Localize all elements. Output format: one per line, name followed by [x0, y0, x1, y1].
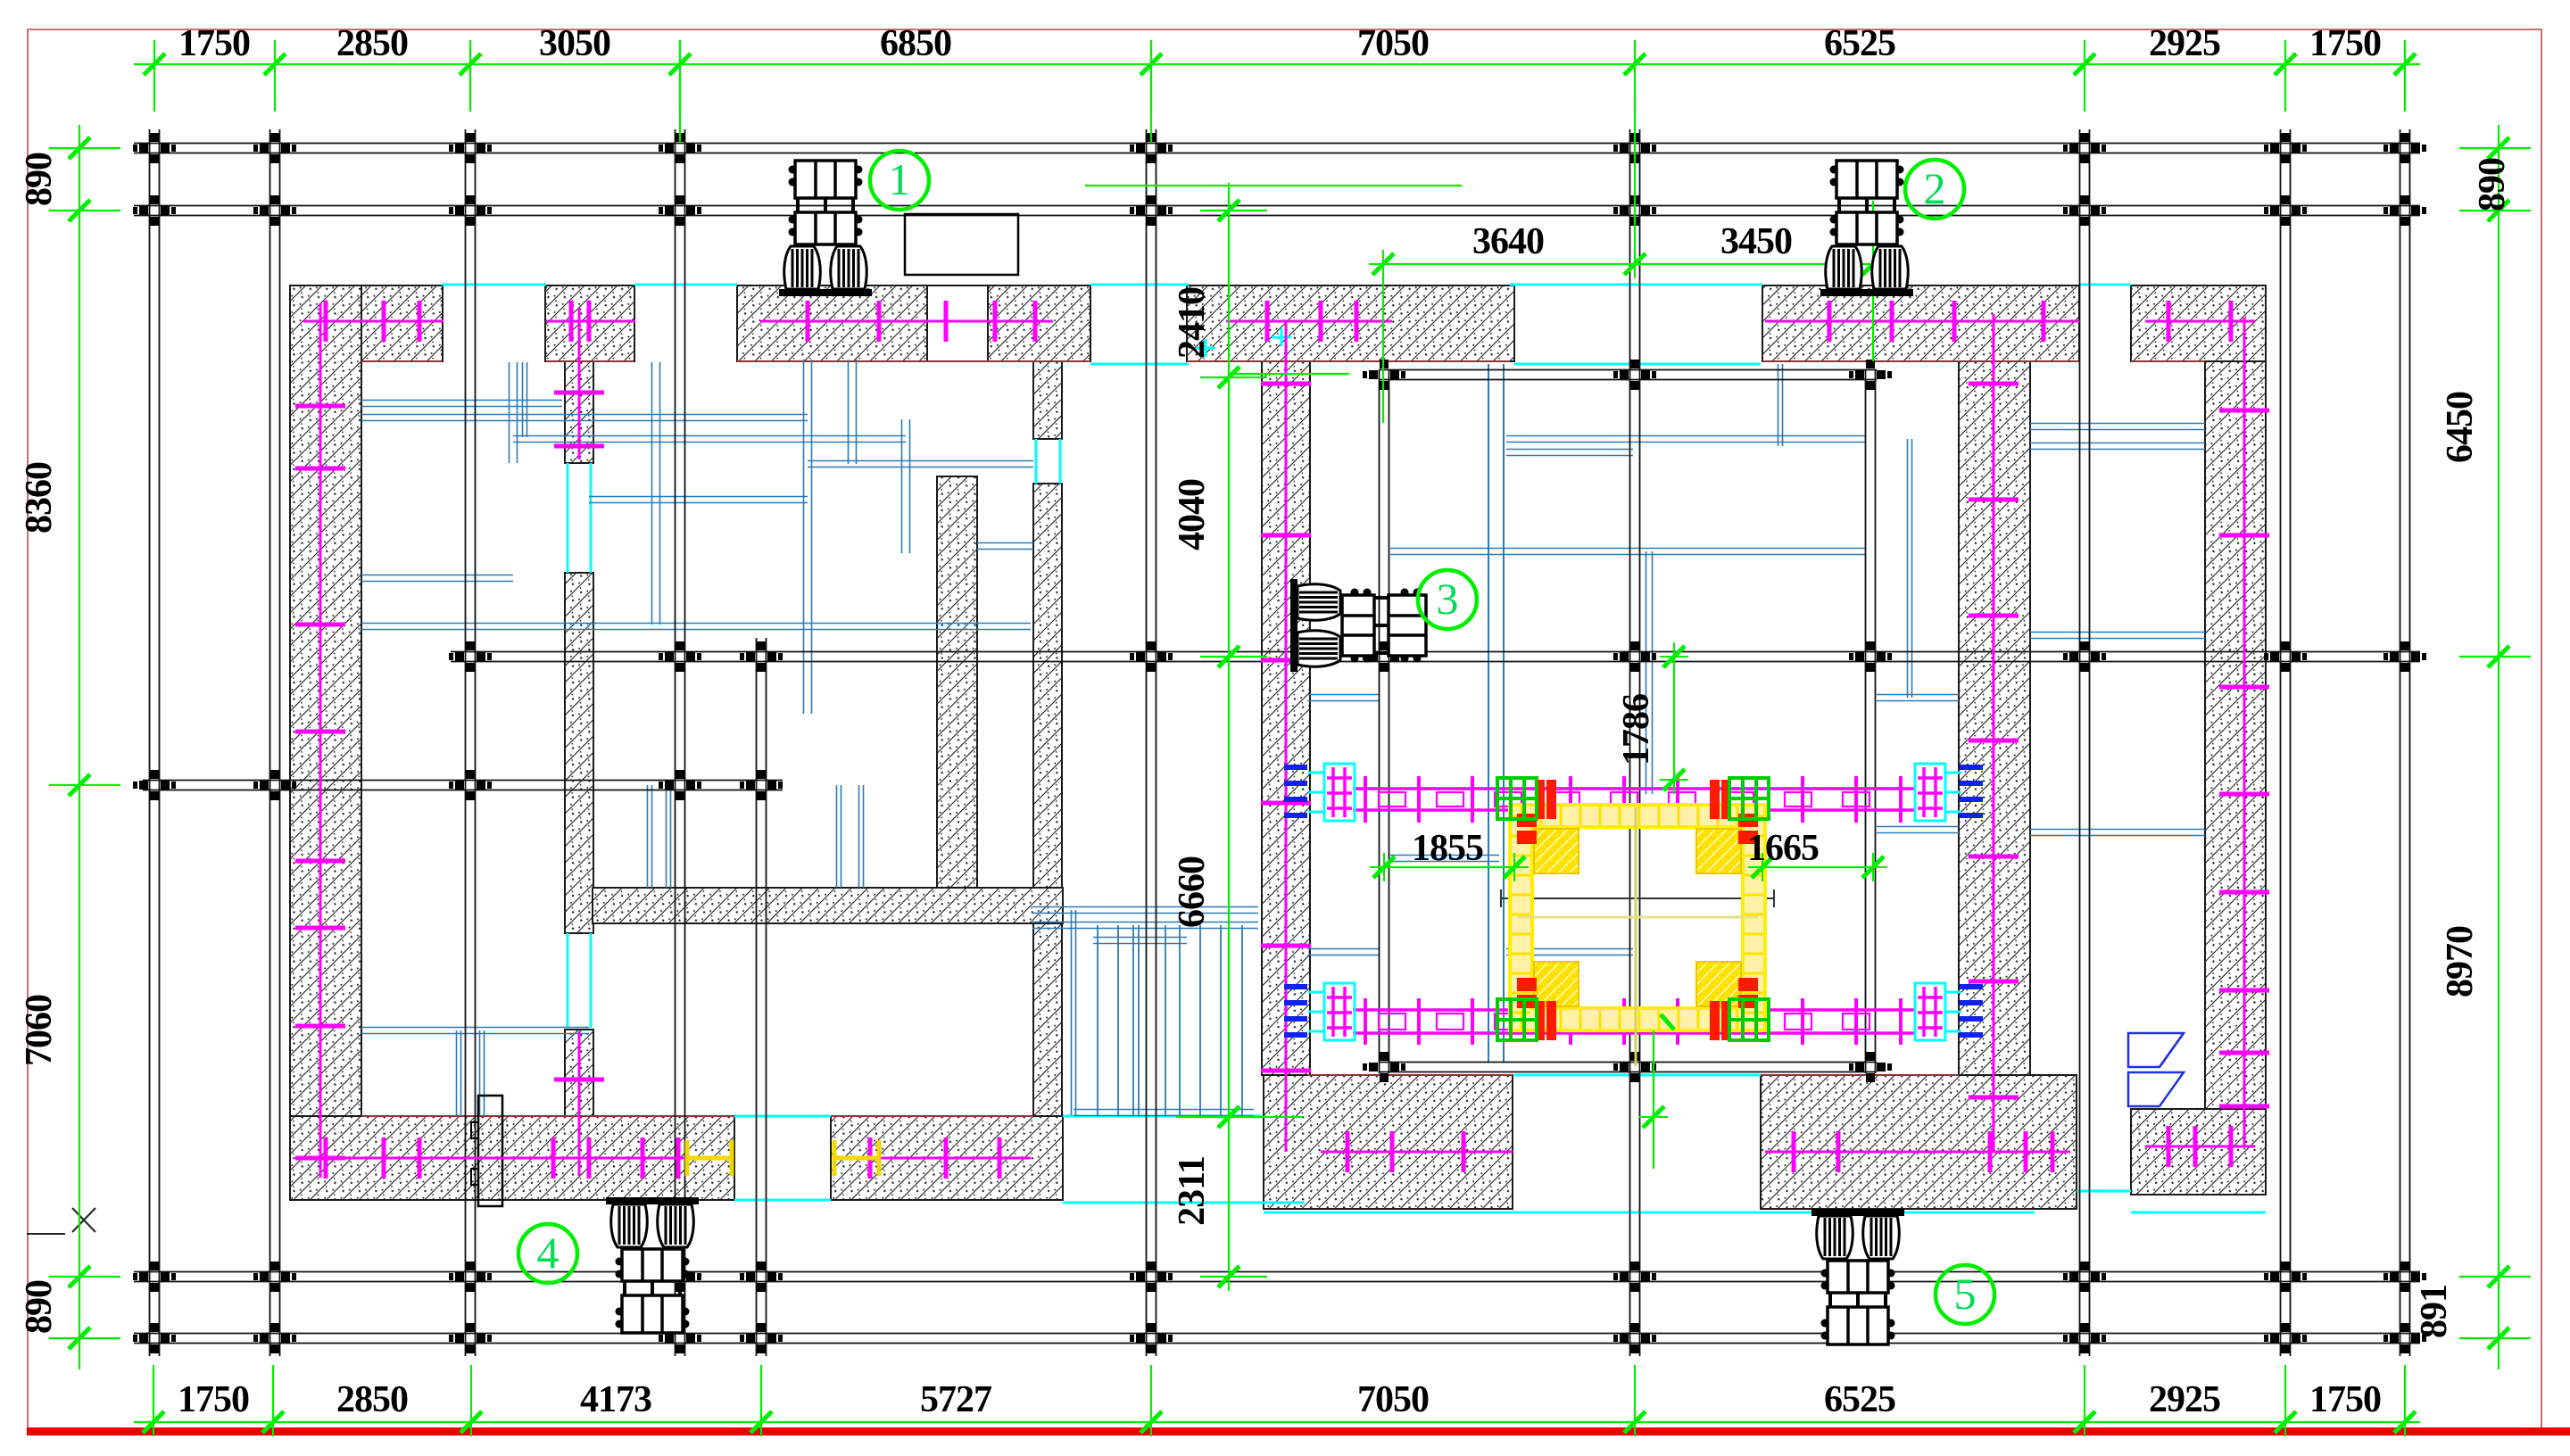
node clamp	[449, 133, 492, 163]
node clamp	[740, 1323, 783, 1353]
pale cross lines	[1635, 807, 1637, 1066]
svg-text:7060: 7060	[19, 995, 60, 1066]
door jamb bracket	[478, 1096, 502, 1206]
node clamp	[133, 1262, 176, 1292]
svg-text:7050: 7050	[1357, 23, 1429, 64]
node clamp	[2063, 133, 2106, 163]
dimension line left	[49, 125, 120, 1369]
node clamp	[659, 195, 701, 226]
svg-text:1786: 1786	[1616, 694, 1657, 765]
svg-text:7050: 7050	[1357, 1379, 1429, 1420]
cyan waler end boxes	[1324, 764, 1355, 821]
svg-text:2925: 2925	[2149, 1379, 2220, 1420]
wall C mid	[1033, 484, 1062, 888]
svg-text:6850: 6850	[880, 23, 951, 64]
wall D right-room left	[1262, 361, 1310, 1075]
node clamp	[740, 641, 783, 672]
node clamp	[2383, 195, 2426, 226]
svg-text:2850: 2850	[336, 1379, 408, 1420]
dims 3640 3450	[1085, 98, 1887, 423]
wire h-rail y166	[134, 144, 2420, 153]
node clamp	[133, 1323, 176, 1353]
machine 5	[1811, 1209, 1904, 1344]
svg-text:6525: 6525	[1824, 23, 1895, 64]
node clamp	[2264, 1323, 2307, 1353]
wall top band seg3 outline	[737, 285, 1090, 361]
mid dimension chain	[1176, 183, 1349, 1291]
wall top band seg5	[1762, 285, 2079, 361]
node clamp	[1849, 1052, 1892, 1082]
svg-text:3640: 3640	[1472, 221, 1544, 262]
svg-text:4: 4	[537, 1228, 560, 1278]
node clamp	[449, 770, 492, 800]
reference cross mark	[27, 1208, 95, 1234]
node clamp	[1613, 641, 1656, 672]
wire v-standard x762	[676, 129, 685, 1356]
interior partition lines (blue) right room	[1307, 364, 1959, 1062]
node clamp	[659, 1262, 701, 1292]
red clamp blocks	[1517, 780, 1758, 1040]
node clamp	[659, 1323, 701, 1353]
svg-text:5: 5	[1954, 1269, 1977, 1319]
node clamp	[1363, 641, 1405, 672]
svg-text:891: 891	[2414, 1285, 2455, 1338]
svg-text:1665: 1665	[1747, 828, 1819, 869]
node clamp	[2383, 133, 2426, 163]
node clamp	[1613, 133, 1656, 163]
svg-text:8970: 8970	[2440, 926, 2481, 997]
yellow H beam marks	[687, 1140, 879, 1176]
interior partition lines (blue) right corridor room	[2030, 424, 2205, 1107]
node clamp	[449, 195, 492, 226]
wire v-standard x1290	[1147, 129, 1156, 1356]
equipment box rectangle	[905, 214, 1018, 275]
node clamp	[1130, 195, 1173, 226]
node clamp	[2264, 195, 2307, 226]
svg-text:2925: 2925	[2149, 23, 2220, 64]
dimension line top	[134, 40, 2420, 143]
wall bottom band right seg2	[1761, 1075, 2077, 1209]
wall bottom band right seg1	[1264, 1075, 1513, 1209]
wire ring bottom	[1379, 1063, 1877, 1072]
node clamp	[253, 1323, 296, 1353]
node bubble 4	[518, 1224, 577, 1283]
node clamp	[449, 641, 492, 672]
svg-text:890: 890	[2472, 158, 2513, 211]
svg-text:2: 2	[1924, 163, 1946, 213]
node clamp	[2264, 1262, 2307, 1292]
wall top band pier seg2	[545, 285, 634, 361]
wall top band seg4	[1187, 285, 1514, 361]
node bubble 5	[1936, 1265, 1994, 1324]
svg-text:1750: 1750	[2309, 23, 2381, 64]
svg-text:3450: 3450	[1720, 221, 1792, 262]
wall top band seg6 corner	[2131, 285, 2266, 361]
svg-text:4173: 4173	[580, 1379, 651, 1420]
dim 1786	[1660, 642, 1688, 794]
wire v-standard x2695	[2400, 129, 2410, 1356]
wire h-rail y236	[134, 206, 2420, 216]
wall pier A upper	[565, 361, 593, 463]
node clamp	[1849, 360, 1892, 390]
machine 3	[1290, 579, 1426, 672]
wire v-standard x2336	[2080, 129, 2090, 1356]
node clamp	[1130, 641, 1173, 672]
node clamp	[133, 770, 176, 800]
node clamp	[449, 1323, 492, 1353]
svg-text:6525: 6525	[1824, 1379, 1895, 1420]
node clamp	[659, 133, 701, 163]
wall pier A mid	[565, 573, 593, 933]
wall E right-room right	[1959, 361, 2030, 1075]
interior partition lines (blue) left building	[361, 360, 1258, 1116]
wire v-standard x173	[150, 129, 160, 1356]
wall bottom band left seg1	[290, 1116, 734, 1200]
node clamp	[449, 1262, 492, 1292]
wall bottom band right seg3	[2131, 1109, 2266, 1195]
svg-text:5727: 5727	[920, 1379, 991, 1420]
cyan formline top door gaps	[442, 285, 2266, 1212]
wire v-standard x1832	[1630, 129, 1640, 1356]
wire ring left	[1380, 369, 1389, 1073]
wall B interior	[937, 476, 977, 888]
svg-text:2311: 2311	[1172, 1156, 1213, 1226]
node clamp	[2063, 1262, 2106, 1292]
node bubble 1	[870, 151, 929, 210]
yellow formwork ring	[1510, 805, 1765, 1030]
wall C top piece	[1033, 361, 1062, 439]
svg-text:890: 890	[19, 1280, 60, 1334]
node clamp	[253, 195, 296, 226]
wall left outer	[290, 285, 361, 1200]
svg-text:2850: 2850	[336, 23, 408, 64]
node bubble 2	[1905, 160, 1964, 219]
node bubble 3	[1418, 570, 1477, 629]
node clamp	[1613, 1262, 1656, 1292]
svg-text:1750: 1750	[178, 1379, 249, 1420]
wall top band seg3a hatch	[737, 285, 927, 361]
blue bar blocks	[1284, 767, 1983, 1035]
svg-text:3: 3	[1437, 574, 1459, 624]
wire v-standard x527	[466, 129, 476, 1356]
svg-text:6450: 6450	[2440, 392, 2481, 463]
machine 2	[1820, 161, 1913, 296]
level line in ring	[1501, 889, 1774, 907]
wall top band seg1	[290, 285, 443, 361]
wire v-standard x2561	[2281, 129, 2291, 1356]
svg-text:890: 890	[19, 153, 60, 206]
node clamp	[2063, 1323, 2106, 1353]
svg-text:1750: 1750	[2309, 1379, 2381, 1420]
wall interior band left building	[593, 888, 1063, 923]
wire h-rail y1431	[134, 1272, 2420, 1282]
node clamp	[1363, 1052, 1405, 1082]
wire v-standard x308	[270, 129, 280, 1356]
wall C lower	[1033, 906, 1062, 1116]
wall top band seg3b hatch	[988, 285, 1090, 361]
node clamp	[2063, 641, 2106, 672]
node clamp	[2383, 1262, 2426, 1292]
svg-text:1750: 1750	[178, 23, 250, 64]
wall F rightmost vertical	[2205, 361, 2266, 1109]
wall inner face lines	[361, 361, 2205, 1116]
node clamp	[1130, 133, 1173, 163]
red base line	[27, 1427, 2570, 1435]
machine 4	[606, 1197, 699, 1333]
wall pier A lower	[565, 1030, 593, 1116]
node clamp	[659, 770, 701, 800]
magenta walers center	[1353, 776, 1915, 1045]
node clamp	[1130, 1323, 1173, 1353]
wire ring right	[1866, 369, 1876, 1073]
node clamp	[659, 641, 701, 672]
svg-text:1: 1	[889, 154, 911, 204]
node clamp	[740, 770, 783, 800]
corner plates yellow hatch	[1534, 829, 1579, 873]
wire ring top	[1379, 370, 1877, 380]
node clamp	[253, 770, 296, 800]
green blocks	[1497, 778, 1769, 1040]
svg-text:2410: 2410	[1172, 287, 1213, 359]
node clamp	[1130, 1262, 1173, 1292]
wire h-rail mid-left	[143, 781, 783, 790]
node clamp	[1613, 195, 1656, 226]
node clamp	[2383, 1323, 2426, 1353]
node clamp	[1363, 360, 1405, 390]
machine 1	[779, 161, 872, 296]
node clamp	[1613, 360, 1656, 390]
svg-text:6660: 6660	[1172, 856, 1213, 928]
node clamp	[133, 133, 176, 163]
dims 1855 1665	[1370, 853, 1887, 881]
node clamp	[2383, 641, 2426, 672]
node clamp	[740, 1262, 783, 1292]
dimension line right	[2459, 125, 2531, 1369]
node clamp	[1613, 1323, 1656, 1353]
wire v-standard x853	[757, 638, 767, 1356]
wire h-rail mid-right	[451, 652, 2420, 662]
dimension line bottom	[134, 1365, 2420, 1436]
magenta waler lines on walls	[295, 301, 2269, 1179]
wall bottom band left seg2	[831, 1116, 1063, 1200]
svg-text:1855: 1855	[1412, 828, 1483, 869]
green drop line ring bottom	[1639, 1014, 1674, 1169]
wire h-rail y1500	[134, 1334, 2420, 1344]
svg-text:8360: 8360	[19, 462, 60, 534]
node clamp	[253, 1262, 296, 1292]
node clamp	[1613, 1052, 1656, 1082]
node clamp	[2264, 133, 2307, 163]
node clamp	[2063, 195, 2106, 226]
node clamp	[253, 133, 296, 163]
node clamp	[133, 195, 176, 226]
svg-text:3050: 3050	[539, 23, 610, 64]
node clamp	[2264, 641, 2307, 672]
svg-text:4040: 4040	[1172, 479, 1213, 550]
node clamp	[1849, 641, 1892, 672]
